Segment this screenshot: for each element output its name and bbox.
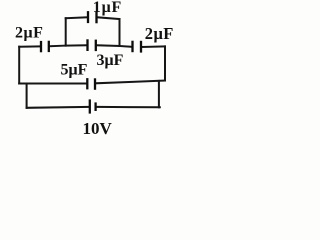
- svg-text:5μF: 5μF: [61, 61, 88, 78]
- svg-text:2μF: 2μF: [145, 24, 174, 43]
- svg-text:1μF: 1μF: [93, 0, 122, 16]
- svg-text:2μF: 2μF: [15, 25, 43, 42]
- svg-text:3μF: 3μF: [97, 52, 124, 69]
- svg-text:10V: 10V: [83, 119, 113, 138]
